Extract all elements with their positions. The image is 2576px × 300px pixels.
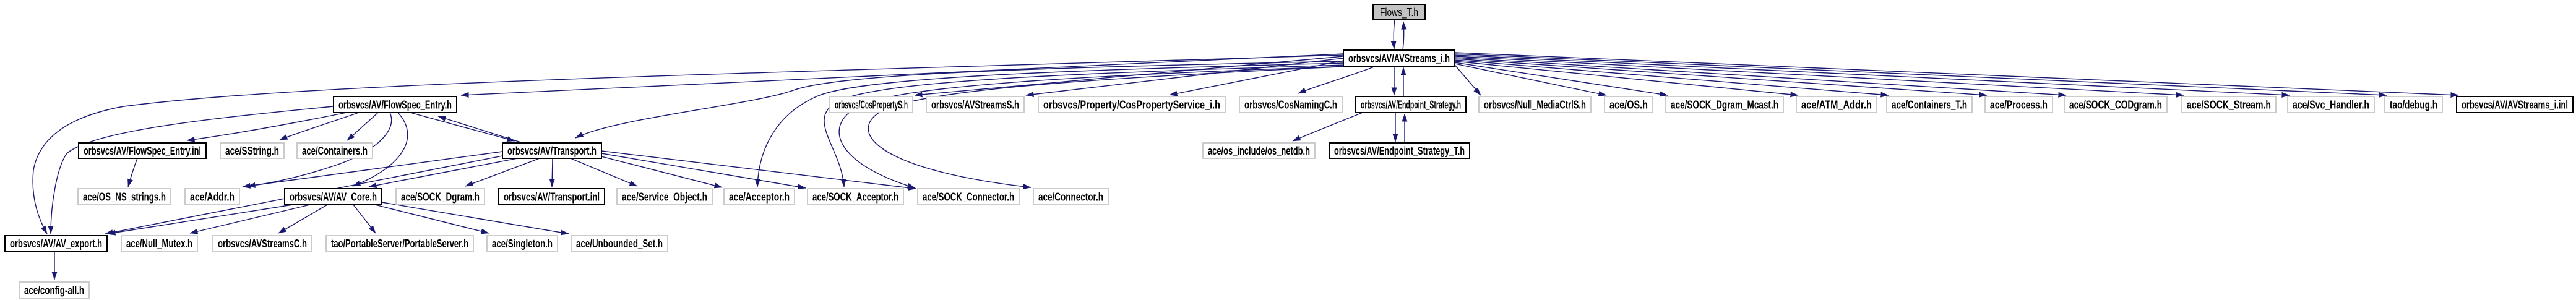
node ace/Null_Mutex.h bbox=[121, 236, 197, 251]
edge FlowSpec_Entry.inl-&gt;OS_NS_strings.h bbox=[128, 158, 137, 187]
node ace/Service_Object.h bbox=[617, 189, 712, 205]
edge FlowSpec_Entry.h-&gt;FlowSpec_Entry.inl bbox=[187, 113, 347, 140]
node tao/debug.h bbox=[2385, 96, 2442, 113]
svg-text:orbsvcs/Property/CosPropertySe: orbsvcs/Property/CosPropertyService_i.h bbox=[1043, 99, 1220, 111]
node orbsvcs/AV/Transport.inl bbox=[499, 189, 605, 205]
edge AVStreams_i.h-&gt;debug.h bbox=[1455, 54, 2387, 95]
edge AV_Core.h-&gt;AVStreamsC.h bbox=[278, 205, 327, 233]
node ace/SOCK_Dgram.h bbox=[396, 189, 485, 205]
node ace/Process.h bbox=[1985, 96, 2053, 113]
edge AVStreams_i.h-&gt;Flows_T.h bbox=[1403, 22, 1404, 50]
svg-text:ace/OS_NS_strings.h: ace/OS_NS_strings.h bbox=[83, 191, 166, 204]
node orbsvcs/Property/CosPropertyService_i.h bbox=[1038, 96, 1225, 113]
node ace/SOCK_Dgram_Mcast.h bbox=[1666, 96, 1783, 113]
node ace/OS.h bbox=[1605, 96, 1653, 113]
svg-text:ace/config-all.h: ace/config-all.h bbox=[24, 285, 84, 297]
node orbsvcs/AV/AVStreams_i.h bbox=[1343, 50, 1455, 66]
node ace/config-all.h bbox=[19, 282, 89, 298]
edge Endpoint_Strategy_T.h-&gt;Endpoint_Strategy.h bbox=[1404, 114, 1405, 143]
svg-text:ace/SOCK_Connector.h: ace/SOCK_Connector.h bbox=[923, 191, 1014, 204]
node ace/ATM_Addr.h bbox=[1796, 96, 1877, 113]
edge Endpoint_Strategy.h-&gt;Endpoint_Strategy_T.h bbox=[1395, 113, 1396, 142]
svg-text:ace/Singleton.h: ace/Singleton.h bbox=[492, 238, 553, 250]
node ace/os_include/os_netdb.h bbox=[1203, 143, 1315, 158]
svg-text:orbsvcs/AVStreamsC.h: orbsvcs/AVStreamsC.h bbox=[218, 238, 307, 250]
edge FlowSpec_Entry.h-&gt;AV_Core.h bbox=[353, 113, 408, 186]
svg-text:ace/Null_Mutex.h: ace/Null_Mutex.h bbox=[126, 238, 192, 250]
svg-text:ace/ATM_Addr.h: ace/ATM_Addr.h bbox=[1801, 99, 1872, 111]
svg-text:ace/os_include/os_netdb.h: ace/os_include/os_netdb.h bbox=[1208, 145, 1310, 157]
svg-text:orbsvcs/CosNamingC.h: orbsvcs/CosNamingC.h bbox=[1244, 99, 1337, 111]
svg-text:tao/debug.h: tao/debug.h bbox=[2390, 99, 2437, 111]
edge Transport.h-&gt;FlowSpec_Entry.h bbox=[438, 116, 523, 143]
node ace/Unbounded_Set.h bbox=[571, 236, 668, 251]
node ace/Acceptor.h bbox=[724, 189, 795, 205]
edge AV_Core.h-&gt;Null_Mutex.h bbox=[190, 205, 310, 233]
svg-text:ace/SOCK_CODgram.h: ace/SOCK_CODgram.h bbox=[2069, 99, 2162, 111]
edge AV_export.h-&gt;config-all.h bbox=[54, 251, 55, 280]
svg-text:orbsvcs/AV/AV_export.h: orbsvcs/AV/AV_export.h bbox=[10, 238, 102, 250]
edge AVStreams_i.h-&gt;AV_export.h bbox=[33, 55, 1343, 234]
edge AVStreams_i.h-&gt;FlowSpec_Entry.h bbox=[461, 54, 1343, 95]
node Flows_T.h bbox=[1373, 4, 1425, 20]
edge AVStreams_i.h-&gt;SOCK_Dgram_Mcast.h bbox=[1455, 62, 1668, 95]
edge AVStreams_i.h-&gt;Acceptor.h bbox=[757, 63, 1345, 187]
node ace/OS_NS_strings.h bbox=[78, 189, 171, 205]
edge Transport.h-&gt;Addr.h bbox=[243, 152, 502, 187]
edge AVStreams_i.h-&gt;CosPropertyService_i.h bbox=[1170, 61, 1343, 95]
svg-text:ace/SOCK_Dgram_Mcast.h: ace/SOCK_Dgram_Mcast.h bbox=[1671, 99, 1778, 111]
node orbsvcs/AV/AVStreams_i.inl bbox=[2457, 96, 2573, 113]
svg-text:orbsvcs/AV/FlowSpec_Entry.h: orbsvcs/AV/FlowSpec_Entry.h bbox=[338, 99, 452, 111]
node ace/SString.h bbox=[220, 143, 284, 158]
node orbsvcs/CosNamingC.h bbox=[1239, 96, 1342, 113]
svg-text:ace/Addr.h: ace/Addr.h bbox=[190, 191, 235, 204]
svg-text:orbsvcs/AV/Endpoint_Strategy.h: orbsvcs/AV/Endpoint_Strategy.h bbox=[1361, 99, 1461, 111]
node ace/Connector.h bbox=[1033, 189, 1108, 205]
edge AV_Core.h-&gt;Singleton.h bbox=[375, 205, 489, 233]
node orbsvcs/AV/Endpoint_Strategy.h bbox=[1356, 96, 1466, 113]
node ace/SOCK_Connector.h bbox=[918, 189, 1019, 205]
svg-text:ace/Connector.h: ace/Connector.h bbox=[1038, 191, 1103, 204]
svg-text:orbsvcs/AV/FlowSpec_Entry.inl: orbsvcs/AV/FlowSpec_Entry.inl bbox=[84, 145, 201, 157]
edge AVStreams_i.h-&gt;SOCK_Connector.h bbox=[839, 66, 1348, 188]
node orbsvcs/Null_MediaCtrlS.h bbox=[1479, 96, 1591, 113]
svg-text:orbsvcs/AV/AVStreams_i.h: orbsvcs/AV/AVStreams_i.h bbox=[1348, 53, 1450, 65]
edge FlowSpec_Entry.h-&gt;SString.h bbox=[280, 113, 359, 140]
node ace/Addr.h bbox=[185, 189, 239, 205]
edge AV_Core.h-&gt;PortableServer.h bbox=[353, 205, 376, 233]
node ace/SOCK_Acceptor.h bbox=[808, 189, 903, 205]
node orbsvcs/AV/AV_Core.h bbox=[285, 189, 382, 205]
node orbsvcs/AV/FlowSpec_Entry.h bbox=[334, 96, 457, 113]
svg-text:orbsvcs/AV/AV_Core.h: orbsvcs/AV/AV_Core.h bbox=[290, 191, 377, 204]
node ace/SOCK_Stream.h bbox=[2182, 96, 2276, 113]
edge AVStreams_i.h-&gt;SOCK_Acceptor.h bbox=[824, 65, 1346, 187]
node tao/PortableServer/PortableServer.h bbox=[326, 236, 473, 251]
node ace/Singleton.h bbox=[487, 236, 558, 251]
svg-text:ace/SOCK_Acceptor.h: ace/SOCK_Acceptor.h bbox=[812, 191, 898, 204]
edge AVStreams_i.h-&gt;CosNamingC.h bbox=[1298, 66, 1376, 93]
svg-text:ace/Svc_Handler.h: ace/Svc_Handler.h bbox=[2293, 99, 2369, 111]
edge AVStreams_i.h-&gt;OS.h bbox=[1455, 64, 1606, 95]
edge AVStreams_i.h-&gt;Endpoint_Strategy.h bbox=[1394, 66, 1395, 95]
edge AVStreams_i.h-&gt;SOCK_CODgram.h bbox=[1455, 58, 2066, 95]
edge Transport.h-&gt;SOCK_Acceptor.h bbox=[601, 153, 806, 188]
edge AVStreams_i.h-&gt;Process.h bbox=[1455, 59, 1987, 95]
svg-text:Flows_T.h: Flows_T.h bbox=[1380, 6, 1418, 19]
svg-text:orbsvcs/AV/Endpoint_Strategy_T: orbsvcs/AV/Endpoint_Strategy_T.h bbox=[1334, 145, 1465, 157]
node ace/Containers_T.h bbox=[1887, 96, 1972, 113]
edge Endpoint_Strategy.h-&gt;os_netdb.h bbox=[1293, 113, 1363, 141]
edge Transport.h-&gt;AV_Core.h bbox=[369, 158, 517, 187]
svg-text:ace/SString.h: ace/SString.h bbox=[225, 145, 279, 157]
edge AVStreams_i.h-&gt;Containers_T.h bbox=[1455, 60, 1889, 95]
svg-text:orbsvcs/AV/Transport.inl: orbsvcs/AV/Transport.inl bbox=[504, 191, 600, 204]
node orbsvcs/AV/Transport.h bbox=[502, 143, 601, 158]
edge AVStreams_i.h-&gt;AVStreamsS.h bbox=[1026, 58, 1343, 95]
svg-text:ace/SOCK_Stream.h: ace/SOCK_Stream.h bbox=[2187, 99, 2271, 111]
svg-text:orbsvcs/Null_MediaCtrlS.h: orbsvcs/Null_MediaCtrlS.h bbox=[1484, 99, 1586, 111]
node ace/Containers.h bbox=[297, 143, 373, 158]
edge Flows_T.h-&gt;AVStreams_i.h bbox=[1394, 20, 1395, 49]
node orbsvcs/AV/FlowSpec_Entry.inl bbox=[79, 143, 206, 158]
svg-text:orbsvcs/CosPropertyS.h: orbsvcs/CosPropertyS.h bbox=[835, 99, 908, 111]
svg-text:orbsvcs/AV/Transport.h: orbsvcs/AV/Transport.h bbox=[507, 145, 597, 157]
edge AVStreams_i.h-&gt;CosPropertyS.h bbox=[915, 56, 1343, 95]
edge AVStreams_i.h-&gt;Null_MediaCtrlS.h bbox=[1455, 65, 1481, 95]
edge AVStreams_i.h-&gt;Svc_Handler.h bbox=[1455, 55, 2290, 95]
edge AVStreams_i.h-&gt;SOCK_Stream.h bbox=[1455, 56, 2184, 95]
svg-text:orbsvcs/AV/AVStreams_i.inl: orbsvcs/AV/AVStreams_i.inl bbox=[2462, 99, 2568, 111]
svg-text:ace/Service_Object.h: ace/Service_Object.h bbox=[622, 191, 707, 204]
edge Transport.h-&gt;SOCK_Dgram.h bbox=[465, 158, 540, 186]
svg-text:ace/Containers_T.h: ace/Containers_T.h bbox=[1892, 99, 1967, 111]
edge FlowSpec_Entry.h-&gt;Containers.h bbox=[347, 113, 378, 140]
node orbsvcs/AV/AV_export.h bbox=[5, 236, 107, 251]
edge AVStreams_i.h-&gt;AVStreams_i.inl bbox=[1455, 53, 2458, 95]
edge AVStreams_i.h-&gt;ATM_Addr.h bbox=[1455, 61, 1798, 95]
node orbsvcs/CosPropertyS.h bbox=[830, 96, 913, 113]
node ace/SOCK_CODgram.h bbox=[2064, 96, 2167, 113]
svg-text:tao/PortableServer/PortableSer: tao/PortableServer/PortableServer.h bbox=[331, 238, 468, 250]
node ace/Svc_Handler.h bbox=[2288, 96, 2374, 113]
edge Transport.h-&gt;AV_export.h bbox=[105, 156, 502, 234]
edge AVStreams_i.h-&gt;Transport.h bbox=[575, 61, 1344, 138]
edge AV_Core.h-&gt;Unbounded_Set.h bbox=[382, 202, 569, 234]
edge FlowSpec_Entry.h-&gt;Addr.h bbox=[248, 113, 392, 186]
svg-text:ace/OS.h: ace/OS.h bbox=[1609, 99, 1648, 111]
edge FlowSpec_Entry.h-&gt;Transport.h bbox=[410, 113, 515, 141]
edge Transport.h-&gt;SOCK_Connector.h bbox=[601, 151, 916, 189]
edge Endpoint_Strategy.h-&gt;AVStreams_i.h bbox=[1403, 67, 1404, 96]
edge FlowSpec_Entry.h-&gt;AV_export.h bbox=[51, 106, 334, 234]
svg-text:ace/Containers.h: ace/Containers.h bbox=[302, 145, 368, 157]
svg-text:ace/Process.h: ace/Process.h bbox=[1990, 99, 2048, 111]
edge AVStreams_i.h-&gt;Connector.h bbox=[868, 66, 1353, 187]
svg-text:ace/SOCK_Dgram.h: ace/SOCK_Dgram.h bbox=[401, 191, 480, 204]
node orbsvcs/AVStreamsS.h bbox=[926, 96, 1024, 113]
edge AV_Core.h-&gt;AV_export.h bbox=[108, 205, 293, 234]
edge Transport.h-&gt;Service_Object.h bbox=[571, 158, 637, 186]
node orbsvcs/AV/Endpoint_Strategy_T.h bbox=[1329, 143, 1470, 158]
svg-text:ace/Unbounded_Set.h: ace/Unbounded_Set.h bbox=[576, 238, 663, 250]
node orbsvcs/AVStreamsC.h bbox=[213, 236, 312, 251]
svg-text:ace/Acceptor.h: ace/Acceptor.h bbox=[729, 191, 790, 204]
edge Transport.h-&gt;Transport.inl bbox=[552, 158, 553, 187]
edge Transport.h-&gt;Acceptor.h bbox=[601, 156, 722, 187]
svg-text:orbsvcs/AVStreamsS.h: orbsvcs/AVStreamsS.h bbox=[931, 99, 1019, 111]
